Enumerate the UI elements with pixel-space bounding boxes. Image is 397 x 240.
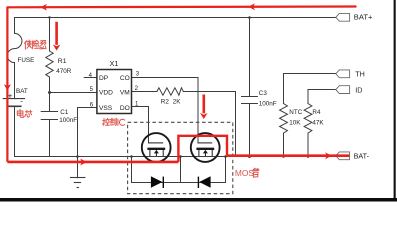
diode D1 <box>151 176 163 188</box>
svg-text:BAT+: BAT+ <box>354 13 373 22</box>
wire diode rail <box>132 182 226 184</box>
svg-text:BAT-: BAT- <box>354 152 370 161</box>
arrowhead Q2 arrow <box>200 113 208 119</box>
arrowhead top at x248 <box>248 3 255 10</box>
svg-text:VM: VM <box>120 90 130 97</box>
label 电芯 (red) <box>17 109 32 117</box>
text labels <box>16 57 324 127</box>
resistor NTC 10K <box>280 104 288 134</box>
arrowhead left down <box>4 84 11 91</box>
wire battery minus down <box>14 106 16 156</box>
svg-text:100nF: 100nF <box>59 117 77 124</box>
wire R4 to ID <box>308 90 336 104</box>
svg-text:ID: ID <box>355 85 362 94</box>
connector labels <box>354 13 373 161</box>
wire diode branch right <box>225 157 227 183</box>
svg-text:C3: C3 <box>259 90 268 97</box>
wire R2 to VM drop <box>183 92 235 157</box>
svg-text:R2: R2 <box>161 99 170 106</box>
wire red top <box>7 5 355 8</box>
resistor R1 470R <box>46 51 53 77</box>
svg-text:FUSE: FUSE <box>18 57 35 64</box>
svg-text:2K: 2K <box>173 99 182 106</box>
transistor Q2 (MOSFET) <box>191 133 220 162</box>
svg-text:47K: 47K <box>312 119 324 126</box>
svg-text:CO: CO <box>120 75 130 82</box>
fuse F1 <box>7 33 22 62</box>
connector TH <box>336 70 350 78</box>
label 控制IC (red) <box>103 118 125 125</box>
svg-text:+: + <box>8 90 13 100</box>
svg-text:R1: R1 <box>58 58 67 65</box>
wire diode branch left <box>131 157 133 183</box>
transistor Q1 (MOSFET) <box>142 133 171 162</box>
wire R1 top <box>49 18 51 52</box>
svg-text:R4: R4 <box>312 109 321 116</box>
wire C3 down <box>249 104 251 157</box>
MOS dashed box <box>128 122 233 193</box>
red arrow down at R1 <box>55 22 58 45</box>
svg-text:100nF: 100nF <box>259 100 277 107</box>
svg-text:MOS: MOS <box>235 168 254 178</box>
frame right border <box>394 0 396 201</box>
wire red bottom-left <box>7 161 178 164</box>
capacitor C1 plates <box>41 111 57 113</box>
wire R1 to node <box>49 77 51 112</box>
frame bottom bar <box>0 198 397 202</box>
wire diode branch mid <box>180 157 182 183</box>
red current path annotation <box>7 7 355 162</box>
svg-text:C1: C1 <box>60 109 69 116</box>
IC pin numbers <box>89 72 140 109</box>
wire red jog over Q2 <box>178 136 227 162</box>
wire fuse to battery <box>14 63 16 99</box>
resistor R4 47K <box>304 104 312 134</box>
diode D2 <box>199 176 210 188</box>
svg-text:X1: X1 <box>110 59 119 68</box>
svg-text:-: - <box>20 96 23 105</box>
svg-text:BAT: BAT <box>16 88 28 95</box>
arrowhead top at x41 <box>40 4 47 11</box>
wire NTC down <box>283 133 285 156</box>
IC pin names <box>99 75 130 112</box>
wire DO to M1 gate <box>132 107 149 144</box>
ground <box>70 178 86 188</box>
arrowhead R1 arrow <box>53 45 61 51</box>
connector BAT- <box>336 152 350 160</box>
svg-text:TH: TH <box>355 70 365 79</box>
wire C1 down <box>49 120 51 157</box>
wire top rail BAT+ <box>15 17 336 19</box>
wire R4 down <box>307 133 309 156</box>
wire red left <box>6 7 8 162</box>
connector ID <box>336 86 350 94</box>
wire bottom rail BAT- <box>15 156 336 158</box>
arrowhead at BAT- <box>325 152 332 159</box>
svg-text:DO: DO <box>120 105 130 112</box>
svg-text:DP: DP <box>99 75 109 82</box>
wire red bottom-right <box>227 154 349 157</box>
label 保险丝 (red) <box>25 40 46 49</box>
wire VM left <box>132 91 157 93</box>
red arrow down at Q2 <box>203 95 206 114</box>
capacitor C3 plates <box>242 96 258 98</box>
connector BAT+ <box>336 13 350 21</box>
wire VDD <box>50 92 97 94</box>
svg-text:VDD: VDD <box>99 90 113 97</box>
svg-text:NTC: NTC <box>289 109 302 116</box>
svg-text:470R: 470R <box>56 68 72 75</box>
wire C3 top <box>249 18 251 97</box>
arrowhead bottom right-pointing <box>80 159 87 166</box>
wire CO to M2 gate <box>132 78 199 144</box>
svg-text:10K: 10K <box>289 119 301 126</box>
wire left drop to fuse <box>14 18 16 34</box>
wire DP stub <box>84 77 97 79</box>
wire VSS to ground <box>78 108 97 178</box>
battery BAT plates <box>3 98 24 100</box>
wire NTC to TH <box>284 74 336 104</box>
op-amp U1 : control IC box X1 <box>97 70 132 114</box>
resistor R2 2K <box>157 88 184 95</box>
svg-text:VSS: VSS <box>99 105 113 112</box>
